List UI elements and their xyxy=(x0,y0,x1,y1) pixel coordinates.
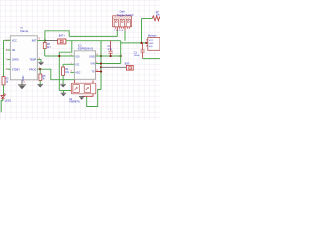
svg-text:VCC: VCC xyxy=(149,40,154,42)
wire BAT- feed (gray) xyxy=(101,66,126,68)
pin module 1 xyxy=(146,39,148,41)
wire R2 to LED xyxy=(2,85,5,95)
label U1 Name xyxy=(20,27,28,33)
toggle switch S3 body xyxy=(113,16,132,32)
pin GND right xyxy=(89,54,98,59)
svg-text:VIN: VIN xyxy=(91,63,95,66)
pushbutton S2 body xyxy=(71,83,96,94)
ground symbol button left xyxy=(61,93,67,96)
wire R4 to ground xyxy=(62,75,64,84)
ground symbol TEMP xyxy=(37,60,44,66)
resistor R5 xyxy=(39,69,46,81)
svg-text:BAT: BAT xyxy=(32,39,37,42)
svg-text:Toggle Switch: Toggle Switch xyxy=(117,13,134,17)
pin 5 BAT xyxy=(32,38,41,43)
capacitor C3 xyxy=(134,43,145,59)
IC U1 TP4056 body xyxy=(10,36,37,80)
junction BAT node xyxy=(44,39,46,41)
svg-text:10k: 10k xyxy=(156,13,160,16)
svg-text:VCC: VCC xyxy=(12,39,17,42)
pin IO2 xyxy=(63,63,80,67)
pin module 3 xyxy=(146,45,148,47)
pin 2 PROG xyxy=(29,66,40,71)
pin 8 CE xyxy=(6,49,16,52)
resistor R7 top right xyxy=(142,11,161,21)
wire R6 bottom to rail xyxy=(44,49,46,56)
junction VIN node xyxy=(100,62,102,64)
sensor module U2 body xyxy=(148,34,160,50)
pin ADC xyxy=(70,71,80,75)
svg-text:4.7u: 4.7u xyxy=(107,49,112,51)
wire branch down to divider node xyxy=(59,41,72,91)
svg-text:1 3 2 5 4 6: 1 3 2 5 4 6 xyxy=(114,30,123,32)
pin 7 CHRG xyxy=(6,59,19,62)
wire VCC rail left vertical xyxy=(4,40,11,76)
svg-text:GND: GND xyxy=(149,43,154,45)
wire GND loop bottom xyxy=(87,90,101,107)
pin VIN right xyxy=(91,61,99,66)
wire button bottom-right leg xyxy=(82,94,93,97)
junction C4 bottom xyxy=(110,55,112,57)
wire VIN row to switch loop xyxy=(96,63,121,65)
connector BAT+ xyxy=(58,34,66,44)
LED LED1 xyxy=(1,93,12,102)
wire top rail to switch xyxy=(69,35,117,37)
resistor R2 xyxy=(2,77,9,85)
resistor R4 xyxy=(62,64,70,75)
wire BAT+ feed (gray) xyxy=(45,40,58,42)
svg-text:LED1: LED1 xyxy=(5,99,12,102)
svg-text:TX: TX xyxy=(91,71,94,74)
wire C3 bottom to edge xyxy=(143,58,160,60)
junction divider node xyxy=(58,55,60,57)
svg-text:100nF: 100nF xyxy=(134,55,141,57)
connector BAT- xyxy=(125,63,134,70)
svg-text:IO2: IO2 xyxy=(75,63,80,66)
svg-text:CHRG: CHRG xyxy=(12,59,19,62)
ground symbol button right xyxy=(79,97,85,100)
label S2 PWRBTN xyxy=(69,98,80,104)
pin 4 VCC xyxy=(6,39,17,42)
pin module 2 xyxy=(146,42,148,44)
capacitor C4 xyxy=(107,41,112,57)
svg-text:IO0: IO0 xyxy=(75,55,80,58)
pin TX right xyxy=(91,69,98,74)
pin IO0 xyxy=(70,55,80,59)
wire x120.7 vertical xyxy=(120,41,122,64)
wire switch pin B xyxy=(124,27,126,41)
wire LED cathode down xyxy=(1,99,3,113)
pin button top-left xyxy=(74,80,76,84)
wire PROG staircase to button xyxy=(37,69,74,80)
wire divider rail to ESP xyxy=(45,55,75,57)
svg-text:STDBY: STDBY xyxy=(12,68,21,71)
wire ESP TX pin (red) xyxy=(96,71,102,73)
junction TX-BATminus node xyxy=(100,66,102,68)
wire button left leg to ground xyxy=(59,91,71,94)
wire GND vertical x101 xyxy=(100,41,102,90)
wire BAT pin to junction xyxy=(37,40,45,42)
label S3 Toggle Switch xyxy=(117,11,134,17)
svg-text:CE: CE xyxy=(12,49,16,52)
wire R5 to ground xyxy=(39,80,41,84)
pin 1 TEMP xyxy=(30,57,41,62)
svg-text:Name: Name xyxy=(20,29,28,33)
junction PROG node xyxy=(39,68,41,70)
svg-text:PROG: PROG xyxy=(29,68,36,71)
wire R7 down to node xyxy=(141,19,143,43)
junction GND row at x101 xyxy=(100,55,102,57)
junction x101 TX node xyxy=(100,70,102,72)
svg-text:PWRBTN: PWRBTN xyxy=(69,101,80,104)
IC1 ESP module body xyxy=(74,51,95,80)
wire BAT+ out to right rail xyxy=(66,40,121,42)
label IC1 ESP8266-01 xyxy=(78,44,94,50)
svg-text:BAT+: BAT+ xyxy=(59,34,66,37)
svg-text:ADC: ADC xyxy=(75,72,80,75)
wire switch pin A xyxy=(116,27,118,37)
svg-text:TEMP: TEMP xyxy=(30,59,37,62)
svg-text:ESP8266-01: ESP8266-01 xyxy=(78,46,94,50)
pin 6 STDBY xyxy=(6,68,20,71)
pin button top-right xyxy=(92,80,94,83)
wire BAT node up and over xyxy=(45,31,69,41)
ground symbol U1 GND xyxy=(18,85,26,90)
junction switch net on GND row xyxy=(120,55,122,57)
ground symbol R5 xyxy=(37,84,43,87)
svg-text:SIG: SIG xyxy=(149,46,153,48)
pin 3 GND xyxy=(22,75,25,84)
svg-text:Moisture: Moisture xyxy=(148,34,158,37)
wire elbow to right modules xyxy=(121,42,147,44)
svg-text:GND: GND xyxy=(89,55,95,58)
svg-text:GND: GND xyxy=(22,75,25,81)
resistor R6 xyxy=(43,41,51,50)
wire ESP GND pin row xyxy=(96,55,121,57)
junction R7 node xyxy=(140,42,142,44)
junction module pin node xyxy=(145,42,147,44)
ground symbol R4 xyxy=(60,84,66,87)
